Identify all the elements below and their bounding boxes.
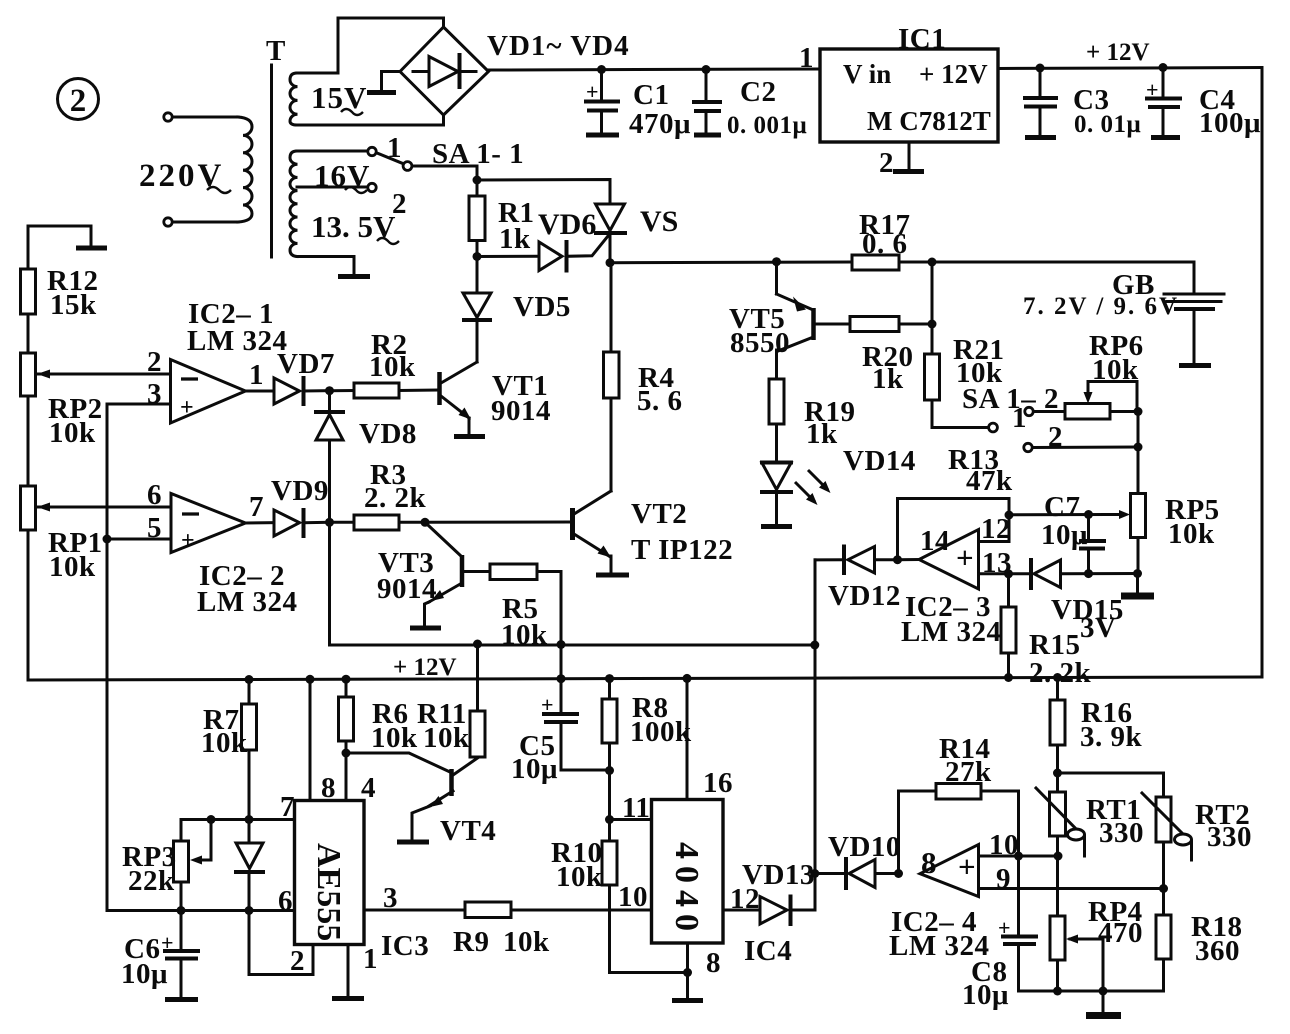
node R6 bottom [342, 749, 351, 758]
label IC2-2 [197, 560, 297, 618]
op-amp IC2-4 [920, 845, 979, 897]
potentiometer RP2 10k [21, 353, 171, 486]
primary terminal lower [164, 218, 172, 226]
diode VD15 [1031, 560, 1138, 626]
node R8 rail [605, 674, 614, 683]
svg-text:10k: 10k [371, 722, 418, 754]
svg-text:LM 324: LM 324 [901, 616, 1001, 648]
svg-text:2: 2 [147, 346, 162, 378]
svg-text:1k: 1k [872, 363, 904, 395]
battery GB [1023, 269, 1224, 363]
node wiper ground [1099, 987, 1108, 996]
label SA1-2 [962, 383, 1059, 415]
label R13 47k [948, 444, 1013, 497]
svg-text:VT2: VT2 [631, 498, 687, 530]
svg-text:16: 16 [703, 767, 733, 799]
svg-text:2. 2k: 2. 2k [364, 482, 427, 514]
svg-text:1: 1 [249, 359, 264, 391]
resistor R6 10k [339, 679, 419, 754]
label pin 13 [982, 547, 1012, 579]
timer IC3 AE555 [295, 801, 365, 945]
wire 555 pin6 [181, 909, 295, 912]
wire pin10 [979, 855, 1059, 858]
wire R6 node to 555 pin4 [345, 753, 348, 801]
ground C6 [165, 997, 198, 1002]
wire winding bottom [297, 257, 354, 275]
svg-text:1: 1 [387, 132, 402, 164]
svg-text:9: 9 [996, 863, 1011, 895]
resistor R12 15k [21, 265, 99, 353]
ground bridge [367, 90, 396, 95]
regulator IC1 MC7812T [820, 49, 998, 142]
svg-text:10μ: 10μ [511, 753, 558, 785]
label pin5 [147, 512, 162, 544]
node pin11 [605, 815, 614, 824]
wire bridge minus output [382, 72, 401, 91]
resistor R18 360 [1156, 911, 1242, 991]
svg-text:VD13: VD13 [742, 859, 815, 891]
svg-text:10k: 10k [369, 351, 416, 383]
label pin9 IC2-4 [996, 863, 1011, 895]
potentiometer RP5 10k [1106, 494, 1220, 574]
svg-text:10k: 10k [49, 551, 96, 583]
wire pin9 [979, 887, 1164, 890]
resistor R20 1k [814, 317, 933, 396]
ground VT3 [410, 626, 441, 631]
svg-text:10k: 10k [201, 727, 248, 759]
svg-text:2. 2k: 2. 2k [1029, 657, 1092, 689]
bridge rectifier VD1~VD4 [400, 27, 489, 115]
label IC2-4 [889, 906, 989, 962]
node pin8 rail [306, 675, 315, 684]
svg-text:330: 330 [1099, 817, 1144, 849]
wire top +12V rail left [489, 69, 821, 70]
secondary winding 16V / 13.5V [290, 151, 298, 257]
svg-text:10μ: 10μ [1041, 519, 1088, 551]
svg-text:11: 11 [622, 792, 650, 824]
counter IC4 4040 [652, 800, 724, 944]
node C3 rail [1036, 64, 1045, 73]
resistor R9 10k [453, 902, 652, 958]
svg-text:SA 1– 2: SA 1– 2 [962, 383, 1059, 415]
svg-text:IC4: IC4 [744, 935, 792, 967]
svg-text:C2: C2 [740, 76, 776, 108]
pin 2 wire IC1 [908, 142, 911, 170]
wire R3 to VT2 base [425, 521, 570, 524]
node R6 rail [342, 675, 351, 684]
thyristor VS [596, 204, 679, 263]
svg-text:2: 2 [290, 945, 305, 977]
wire 555 pin2 [249, 911, 313, 975]
wire right edge [1261, 68, 1264, 678]
svg-text:10k: 10k [501, 619, 548, 651]
bottom ground rail wire [1019, 990, 1164, 993]
node output VD12 [893, 555, 902, 564]
label pin1 [249, 359, 264, 391]
svg-text:3: 3 [383, 882, 398, 914]
label pin3 555 [383, 882, 398, 914]
svg-text:7. 2V / 9. 6V: 7. 2V / 9. 6V [1023, 293, 1179, 320]
node R15 bottom rail [1004, 673, 1013, 682]
ground VT2 [596, 573, 629, 578]
wire output pin14 [898, 558, 920, 561]
wire primary top [173, 116, 239, 119]
svg-text:22k: 22k [128, 865, 175, 897]
svg-text:2: 2 [879, 147, 894, 179]
capacitor C6 10u [121, 911, 198, 998]
svg-text:0. 01μ: 0. 01μ [1074, 111, 1141, 138]
svg-text:10μ: 10μ [962, 979, 1009, 1011]
pin12 stub wire [979, 515, 1010, 542]
ground VT4 [397, 840, 429, 845]
diode VD5 [463, 257, 571, 362]
svg-text:10k: 10k [1168, 518, 1215, 550]
secondary winding 15V [290, 73, 298, 125]
svg-text:LM 324: LM 324 [197, 586, 297, 618]
capacitor C1 470u [586, 70, 691, 141]
label pin2 [147, 346, 162, 378]
ground RP5 [1121, 574, 1154, 597]
wire middle rail to R17 [610, 261, 852, 265]
label VD1~VD4 [487, 30, 630, 62]
node R14/C8 [1014, 852, 1023, 861]
svg-text:IC3: IC3 [381, 930, 429, 962]
svg-text:15V: 15V [311, 80, 367, 115]
wire tap2 16V [297, 186, 368, 189]
op-amp IC2-2 [171, 494, 246, 555]
wire primary bottom [173, 221, 239, 224]
label IC1 [898, 23, 946, 55]
potentiometer RP4 470 [1050, 856, 1143, 991]
resistor R10 10k [551, 771, 688, 973]
node VD7 out [325, 386, 334, 395]
wire 15V bottom to bridge [297, 115, 444, 125]
terminal 2 of winding [368, 183, 376, 191]
svg-text:+ 12V: + 12V [1086, 39, 1150, 66]
+12V branch line y645 [330, 522, 815, 645]
label 16V [314, 158, 370, 193]
label IC3 [381, 930, 429, 962]
transformer T label [266, 35, 286, 67]
svg-text:8: 8 [706, 947, 721, 979]
svg-text:7: 7 [249, 491, 264, 523]
resistor R3 2.2k [330, 459, 427, 530]
svg-text:VS: VS [640, 205, 678, 238]
switch contact 2 [1024, 421, 1138, 453]
node C4 rail [1159, 63, 1168, 72]
svg-text:10k: 10k [49, 417, 96, 449]
wire to RP5 [1137, 412, 1140, 494]
wire 555 pin1 [347, 945, 350, 997]
label pin 12 [981, 513, 1011, 545]
svg-text:15k: 15k [50, 289, 97, 321]
svg-text:100μ: 100μ [1199, 107, 1261, 139]
transistor VT4 [412, 758, 496, 847]
label 15V [311, 80, 367, 115]
ground VD14 [761, 524, 792, 529]
diode VD7 [274, 348, 335, 404]
svg-text:10: 10 [618, 881, 648, 913]
label SA1-1 [432, 138, 524, 170]
svg-text:14: 14 [920, 525, 950, 557]
svg-text:27k: 27k [945, 756, 992, 788]
capacitor C3 0.01u [1025, 68, 1141, 138]
op-amp IC2-1 [171, 360, 246, 424]
label pin1 555 [363, 943, 378, 975]
svg-text:VD7: VD7 [277, 348, 335, 380]
wire pin11 [610, 818, 652, 821]
label pin6 [147, 479, 162, 511]
node RT1/RP4 [1054, 852, 1063, 861]
svg-text:220V: 220V [139, 158, 224, 194]
resistor R1 1k [469, 180, 534, 257]
wire VD12 down bus x815 [814, 560, 817, 910]
wire R17 to battery corner [899, 262, 1194, 291]
potentiometer RP6 10k [1065, 330, 1144, 419]
node RP3 wiper top [207, 815, 216, 824]
svg-text:VD6: VD6 [538, 208, 596, 241]
label pin7 555 [280, 791, 295, 823]
svg-text:+: + [180, 395, 194, 421]
node R5 corner [557, 640, 566, 649]
node R16 rail [1053, 673, 1062, 682]
label pin8 555 [321, 772, 336, 804]
pin 1 label IC1 [799, 42, 814, 74]
ground bottom right [1086, 991, 1121, 1016]
node +12V branch at x815 [810, 641, 819, 650]
svg-text:1: 1 [799, 42, 814, 74]
svg-text:T IP122: T IP122 [631, 534, 733, 566]
svg-text:3. 9k: 3. 9k [1080, 721, 1143, 753]
node C1 rail [597, 65, 606, 74]
svg-text:0. 6: 0. 6 [862, 228, 908, 260]
figure number circled 2 [58, 79, 99, 120]
svg-text:T: T [266, 35, 286, 67]
node VD9 out [325, 518, 334, 527]
svg-text:100k: 100k [630, 716, 692, 748]
node diode bottom pin6 line [245, 906, 254, 915]
label 1 (tap) [387, 132, 402, 164]
resistor R2 10k [330, 329, 438, 398]
wire pin3 [107, 403, 171, 406]
primary terminal upper [164, 113, 172, 121]
diode VD10 [815, 831, 901, 888]
node pin16 rail [683, 674, 692, 683]
node C5 rail [557, 674, 566, 683]
svg-text:8550: 8550 [730, 327, 790, 359]
label IC2-3 [901, 591, 1001, 648]
wire pin3 bus down [107, 404, 181, 911]
feedback loop wire (R13 net) [898, 499, 1010, 560]
wire output pin7 [246, 521, 275, 524]
svg-text:VD12: VD12 [828, 580, 901, 612]
wire pin5 [107, 538, 171, 541]
label pin12 4040 [730, 883, 760, 915]
svg-text:1k: 1k [499, 223, 531, 255]
node pin5 vertical [103, 535, 112, 544]
wire 555 pin3 [364, 909, 465, 912]
resistor R16 3.9k [1050, 678, 1143, 774]
svg-text:M C7812T: M C7812T [867, 106, 991, 136]
node VT5 emitter rail [772, 257, 781, 266]
transistor VT1 9014 [440, 322, 552, 435]
resistor R5 10k [462, 564, 561, 651]
node VS cathode [606, 258, 615, 267]
wire RT2 top link [1058, 773, 1164, 797]
capacitor C4 100u [1146, 68, 1261, 140]
wire 555 pin8 [309, 679, 312, 800]
pin 2 label IC1 [879, 147, 894, 179]
svg-text:470: 470 [1098, 917, 1143, 949]
svg-text:VD10: VD10 [828, 831, 901, 863]
svg-text:10k: 10k [1092, 354, 1139, 386]
potentiometer RP1 10k [21, 486, 172, 680]
thermistor RT2 330 [1142, 793, 1252, 915]
wire 4040 pin16 [686, 678, 689, 799]
node contact2 wire [1134, 443, 1143, 452]
svg-text:5. 6: 5. 6 [637, 385, 683, 417]
ground battery [1179, 363, 1211, 368]
node C7 bottom [1084, 569, 1093, 578]
node pin12 [1005, 511, 1014, 520]
label IC2-1 [187, 298, 287, 357]
resistor R19 1k [769, 379, 855, 461]
resistor R8 100k [602, 679, 692, 771]
resistor R17 0.6 [852, 209, 910, 270]
pin13 wire [979, 572, 1032, 575]
wire branch to rail [560, 645, 563, 679]
feedback wire R14 loop [899, 791, 937, 874]
ground secondary winding [338, 274, 370, 279]
label pin10 [618, 881, 648, 913]
svg-text:10μ: 10μ [121, 958, 168, 990]
capacitor C2 0.001u [694, 70, 807, 140]
ground 555 pin1 [332, 996, 364, 1001]
svg-text:AE555: AE555 [310, 843, 347, 941]
label +12V top [1086, 39, 1150, 66]
svg-text:R9: R9 [453, 926, 489, 958]
diode VD9 [271, 475, 330, 536]
capacitor C8 10u [962, 856, 1036, 1011]
svg-text:0. 001μ: 0. 001μ [727, 112, 807, 139]
svg-text:6: 6 [147, 479, 162, 511]
svg-text:3V: 3V [1080, 612, 1116, 644]
label pin11 [622, 792, 650, 824]
svg-text:6: 6 [278, 885, 293, 917]
resistor R14 27k [936, 733, 1019, 856]
node R11 top [473, 640, 482, 649]
thermistor RT1 330 [1036, 773, 1144, 856]
svg-text:V in: V in [843, 59, 891, 89]
svg-text:8: 8 [921, 845, 937, 880]
node RP6 right [1134, 407, 1143, 416]
wire R6 node to VT4 base [346, 753, 450, 772]
node pin8 [683, 968, 692, 977]
probe bar top left [28, 226, 107, 269]
svg-text:2: 2 [70, 83, 87, 119]
label 13.5V [311, 209, 399, 244]
label pin8 4040 [706, 947, 721, 979]
resistor R7 10k [201, 680, 257, 820]
resistor R15 2.2k [1001, 574, 1092, 689]
wire 4040 pin12 [723, 909, 760, 912]
svg-text:2: 2 [392, 188, 407, 220]
node R3 out [421, 518, 430, 527]
transistor VT5 8550 [729, 262, 814, 379]
node VD10 line at x815 [810, 869, 819, 878]
svg-text:10k: 10k [503, 926, 550, 958]
label pin3 [147, 378, 162, 410]
svg-text:C1: C1 [633, 79, 669, 111]
label pin7 [249, 491, 264, 523]
node R1 bottom [473, 252, 482, 261]
svg-text:10k: 10k [423, 722, 470, 754]
node IC2-4 output [894, 869, 903, 878]
wire to VS anode [477, 180, 610, 205]
wire pin12 to RP5 wiper [1009, 513, 1106, 516]
transformer core [270, 65, 273, 257]
resistor R4 5.6 [604, 263, 683, 491]
label pin2 555 [290, 945, 305, 977]
node C7 top [1084, 510, 1093, 519]
svg-text:9014: 9014 [377, 573, 437, 605]
node RP4 bottom [1053, 987, 1062, 996]
transistor VT2 TIP122 [573, 491, 734, 572]
wire 4040 pin8 [686, 943, 689, 998]
switch SA1-2 [932, 402, 1065, 434]
primary winding 220V [238, 117, 252, 222]
svg-text:9014: 9014 [491, 395, 551, 427]
node R20 right [928, 320, 937, 329]
node R1 top [473, 176, 482, 185]
label +12V rail [393, 654, 457, 681]
svg-text:+: + [181, 528, 195, 554]
svg-text:VD5: VD5 [513, 291, 571, 323]
svg-text:330: 330 [1207, 821, 1252, 853]
resistor R11 10k [417, 644, 485, 757]
diode VD6 [477, 208, 610, 271]
node RP5 bottom [1133, 569, 1142, 578]
LED VD14 [762, 445, 916, 523]
capacitor C7 10u [1041, 491, 1104, 574]
wire output pin1 [246, 390, 275, 393]
terminal 1 of winding [368, 147, 376, 155]
svg-text:7: 7 [280, 791, 295, 823]
svg-text:LM 324: LM 324 [187, 325, 287, 357]
node R7 bottom pin7 line [245, 815, 254, 824]
svg-text:10k: 10k [556, 861, 603, 893]
svg-text:+: + [956, 540, 974, 575]
diode VD12 [815, 547, 901, 613]
label pin6 555 [278, 885, 293, 917]
+12V rail [28, 677, 1262, 680]
node pin9 RT2 [1159, 884, 1168, 893]
label 2 (tap) [392, 188, 407, 220]
node R8 bottom [605, 766, 614, 775]
svg-text:VD9: VD9 [271, 475, 329, 507]
wire 15V top to bridge [297, 18, 444, 73]
node R7 rail [245, 675, 254, 684]
ground 4040 pin8 [672, 998, 703, 1003]
label 3V [1080, 612, 1116, 644]
svg-text:VD14: VD14 [843, 445, 916, 477]
node R15 top [1004, 569, 1013, 578]
label pin16 [703, 767, 733, 799]
wire top +12V rail right [998, 68, 1262, 69]
diode VD13 [742, 859, 815, 924]
svg-text:1k: 1k [806, 418, 838, 450]
capacitor C5 10u [511, 679, 610, 785]
